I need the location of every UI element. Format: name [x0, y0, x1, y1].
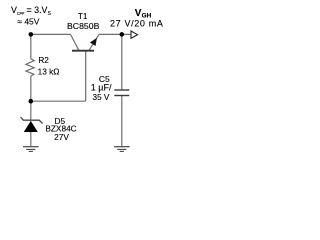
svg-text:35 V: 35 V — [93, 93, 110, 102]
svg-text:R2: R2 — [38, 56, 49, 65]
svg-text:= 3.V: = 3.V — [27, 5, 48, 15]
svg-text:13 kΩ: 13 kΩ — [38, 66, 60, 76]
svg-text:27V: 27V — [54, 132, 69, 142]
svg-text:≈ 45V: ≈ 45V — [17, 16, 39, 26]
svg-text:BC850B: BC850B — [67, 21, 100, 31]
svg-text:1 µF/: 1 µF/ — [91, 83, 112, 93]
svg-text:27 V/20 mA: 27 V/20 mA — [110, 19, 164, 29]
svg-text:T1: T1 — [78, 12, 88, 21]
